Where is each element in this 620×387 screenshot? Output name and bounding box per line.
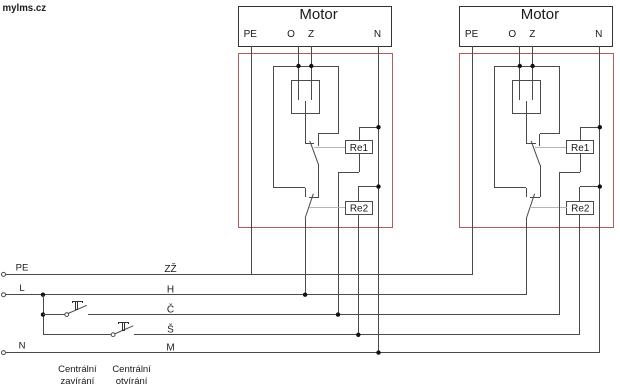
svg-text:mylms.cz: mylms.cz bbox=[3, 3, 47, 14]
switch S2 moving arm block 2 bbox=[526, 194, 534, 218]
wire S1 common to S2 right contact block 1 bbox=[318, 165, 320, 197]
S branch wire left part bbox=[43, 334, 112, 336]
junction O wire block 1 bbox=[296, 64, 300, 68]
switch S1 right contact stub block 2 bbox=[539, 134, 541, 146]
connector common lead block 1 bbox=[305, 101, 307, 144]
junction Re1/N block 1 bbox=[376, 125, 380, 129]
switch S1 left contact tail block 1 bbox=[305, 143, 314, 145]
switch S1 moving arm block 1 bbox=[310, 141, 319, 165]
junction L bus branch bbox=[41, 293, 45, 297]
wire Re1 coil top pin block 1 bbox=[359, 127, 361, 140]
junction S bus / left Re2 return bbox=[356, 333, 360, 337]
pushbutton SB2 actuator bar right tick bbox=[128, 322, 130, 324]
wire Z terminal M1 bbox=[311, 46, 313, 100]
svg-text:Z: Z bbox=[308, 29, 314, 40]
junction H bus / left S2 common bbox=[303, 293, 307, 297]
junction O wire block 2 bbox=[518, 64, 522, 68]
wire top loop horizontal block 1 bbox=[274, 66, 338, 68]
svg-text:Re2: Re2 bbox=[350, 203, 369, 214]
svg-text:M: M bbox=[166, 342, 174, 353]
wire Re2 coil top pin block 1 bbox=[358, 187, 360, 201]
PE bus wire bbox=[6, 274, 473, 276]
red outline of relay unit 2 bbox=[460, 54, 614, 228]
wire Re1 top to N wire block 1 bbox=[359, 127, 378, 129]
wire O terminal M1 bbox=[298, 46, 300, 100]
connector box block 2 bbox=[513, 81, 541, 114]
svg-text:Centrální: Centrální bbox=[58, 364, 97, 375]
L / H bus wire bbox=[6, 294, 526, 296]
wire Re1 bottom horizontal block 2 bbox=[559, 172, 580, 174]
svg-text:Š: Š bbox=[167, 323, 174, 336]
motor M1 box bbox=[239, 7, 392, 47]
wire loop bottom block 1 bbox=[274, 187, 305, 189]
wire Re2 bottom down to S bus block 1 bbox=[358, 214, 360, 335]
svg-text:Centrální: Centrální bbox=[112, 364, 151, 375]
svg-text:PE: PE bbox=[244, 29, 258, 40]
red outline of relay unit 1 bbox=[239, 54, 393, 228]
wire Z terminal M2 bbox=[532, 46, 534, 100]
relay Re1 box block 1 bbox=[346, 141, 373, 154]
C branch wire left part bbox=[43, 314, 65, 316]
switch S1 right contact horizontal block 2 bbox=[540, 133, 559, 135]
pushbutton SB1 contact circle bbox=[65, 313, 69, 317]
svg-text:N: N bbox=[19, 340, 26, 351]
switch S2 left contact stub block 1 bbox=[305, 188, 307, 197]
switch S2 moving arm block 1 bbox=[305, 194, 313, 218]
wire Re1 coil top pin block 2 bbox=[580, 127, 582, 140]
wire loop bottom block 2 bbox=[495, 187, 526, 189]
relay Re2 box block 2 bbox=[567, 202, 594, 215]
svg-text:ZŽ: ZŽ bbox=[164, 262, 176, 275]
wire Re1 coil bottom pin block 1 bbox=[359, 154, 361, 172]
svg-text:Re1: Re1 bbox=[571, 143, 590, 154]
svg-text:N: N bbox=[374, 29, 381, 40]
svg-text:O: O bbox=[508, 29, 516, 40]
pushbutton SB2 contact circle bbox=[111, 333, 115, 337]
wire Re2 top to N wire block 1 bbox=[358, 186, 378, 188]
pushbutton SB2 actuator bar left tick bbox=[118, 322, 120, 324]
wire PE from motor M2 bbox=[472, 46, 474, 274]
connector box block 1 bbox=[292, 81, 320, 114]
junction Z wire block 2 bbox=[530, 64, 534, 68]
mechanical link S1-Re1 block 2 bbox=[535, 147, 566, 149]
PE bus riser to motor M2 bbox=[472, 46, 474, 274]
wire loop left side block 2 bbox=[494, 66, 496, 188]
svg-text:O: O bbox=[287, 29, 295, 40]
C bus wire bbox=[88, 314, 559, 316]
switch S2 right contact tail block 1 bbox=[309, 197, 319, 199]
svg-text:H: H bbox=[167, 284, 174, 295]
switch S2 left contact stub block 2 bbox=[526, 188, 528, 197]
wire loop right side block 2 bbox=[559, 66, 561, 134]
junction Z wire block 1 bbox=[309, 64, 313, 68]
wire loop left side block 1 bbox=[273, 66, 275, 188]
wire N terminal M1 down to bus bbox=[378, 46, 380, 353]
wire Re2 bottom down to S bus block 2 bbox=[579, 214, 581, 335]
switch S1 right contact horizontal block 1 bbox=[318, 133, 338, 135]
wire Re1 bottom down to C bus block 1 bbox=[338, 172, 340, 315]
svg-text:Motor: Motor bbox=[299, 6, 337, 23]
C bus riser to right Re1 bbox=[559, 172, 561, 315]
pushbutton SB1 actuator bar bbox=[72, 301, 82, 303]
node L terminal circle bbox=[2, 293, 6, 297]
wire N terminal M2 down to bus bbox=[599, 46, 601, 353]
wire S2 common down to H bus block 2 bbox=[526, 218, 528, 295]
pushbutton SB2 blade bbox=[114, 326, 133, 334]
wire S2 common down to H bus block 1 bbox=[305, 218, 307, 295]
wire PE from motor M1 bbox=[251, 46, 253, 274]
wire top loop horizontal block 2 bbox=[495, 66, 559, 68]
svg-text:PE: PE bbox=[465, 29, 479, 40]
svg-text:L: L bbox=[19, 283, 24, 294]
wire O terminal M2 bbox=[519, 46, 521, 100]
pushbutton SB1 actuator bar right tick bbox=[82, 301, 84, 303]
switch S2 right contact tail block 2 bbox=[530, 197, 540, 199]
wire loop right side block 1 bbox=[338, 66, 340, 134]
svg-text:Z: Z bbox=[529, 29, 535, 40]
node N terminal circle bbox=[2, 351, 6, 355]
svg-text:Re2: Re2 bbox=[571, 203, 590, 214]
wire Re1 bottom down to C bus block 2 bbox=[559, 172, 561, 315]
junction Re1/N block 2 bbox=[598, 125, 602, 129]
wire L branch vertical bbox=[43, 295, 45, 335]
pushbutton SB2 plunger stem bbox=[123, 323, 125, 331]
wire Re2 top to N wire block 2 bbox=[580, 186, 600, 188]
svg-text:otvírání: otvírání bbox=[116, 376, 148, 387]
svg-text:PE: PE bbox=[16, 263, 29, 274]
wire Re1 bottom horizontal block 1 bbox=[338, 172, 359, 174]
N / M bus wire bbox=[6, 352, 600, 354]
switch S1 moving arm block 2 bbox=[531, 141, 540, 165]
mechanical link S2-Re2 block 2 bbox=[530, 207, 567, 209]
junction Re2/N block 1 bbox=[376, 184, 380, 188]
mechanical link S1-Re1 block 1 bbox=[314, 147, 345, 149]
switch S1 right contact stub block 1 bbox=[318, 134, 320, 146]
junction C branch bbox=[41, 312, 45, 316]
pushbutton SB1 actuator bar left tick bbox=[72, 301, 74, 303]
svg-text:Motor: Motor bbox=[521, 6, 559, 23]
relay Re2 box block 1 bbox=[346, 202, 373, 215]
junction C bus / left Re1 return bbox=[336, 312, 340, 316]
wire Re1 coil bottom pin block 2 bbox=[580, 154, 582, 172]
S bus wire bbox=[134, 334, 580, 336]
S bus riser to right Re2 bbox=[579, 214, 581, 335]
connector common lead block 2 bbox=[526, 101, 528, 144]
mechanical link S2-Re2 block 1 bbox=[309, 207, 345, 209]
wire Re1 top to N wire block 2 bbox=[580, 127, 600, 129]
wire S1 common to S2 right contact block 2 bbox=[540, 165, 542, 197]
relay Re1 box block 2 bbox=[567, 141, 594, 154]
switch S1 left contact tail block 2 bbox=[526, 143, 536, 145]
junction Re2/N block 2 bbox=[598, 184, 602, 188]
node PE terminal circle bbox=[2, 272, 6, 276]
pushbutton SB1 blade bbox=[68, 305, 87, 313]
motor M2 box bbox=[460, 7, 613, 47]
pushbutton SB2 actuator bar bbox=[119, 322, 129, 324]
svg-text:zavírání: zavírání bbox=[61, 376, 95, 387]
junction M bus / left motor N bbox=[376, 350, 380, 354]
svg-text:N: N bbox=[595, 29, 602, 40]
pushbutton SB1 plunger stem bbox=[76, 302, 78, 310]
wire Re2 coil top pin block 2 bbox=[579, 187, 581, 201]
svg-text:Re1: Re1 bbox=[350, 143, 369, 154]
svg-text:Č: Č bbox=[167, 302, 174, 315]
